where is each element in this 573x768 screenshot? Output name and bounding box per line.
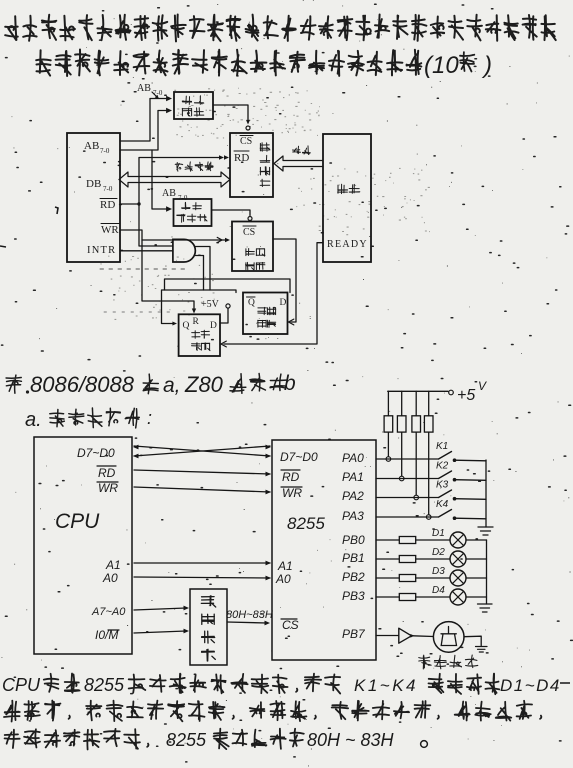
node +5V bubble at request D: [226, 304, 230, 308]
svg-text:AB: AB: [162, 188, 176, 199]
label mask text row2 b: [267, 320, 276, 327]
svg-text:PA2: PA2: [342, 489, 364, 503]
wire PB1 to resistor: [376, 558, 399, 560]
wire PA2 to switch: [376, 497, 438, 499]
label decoder U2 row1b: [193, 203, 202, 210]
svg-text:(10: (10: [424, 52, 459, 79]
resistor RD1: [399, 537, 415, 544]
label control-port text row2: [246, 262, 255, 269]
node junction PA0: [386, 457, 391, 462]
label buzzer (4 glyphs): [419, 655, 478, 669]
address decoder box: [190, 589, 227, 665]
svg-text:7-0: 7-0: [100, 147, 110, 155]
node CS bubble on control port: [248, 217, 252, 221]
label request text row1 a: [192, 331, 200, 339]
wire IO/M to decoder: [134, 631, 186, 633]
node CS bubble on data port: [246, 126, 250, 130]
label mask text row1 a: [258, 307, 267, 314]
svg-text:D3: D3: [432, 566, 445, 577]
overline RD pin: [100, 198, 117, 200]
wire A0: [134, 577, 270, 578]
interrupt mask flip-flop box: [243, 293, 288, 335]
resistor RD3: [399, 575, 415, 582]
wire data bus cross a: [134, 446, 270, 456]
wire control port to mask clock: [273, 239, 296, 322]
node +5V terminal: [449, 390, 454, 395]
wire switch K2 to rail: [455, 479, 487, 482]
svg-text:D4: D4: [432, 585, 445, 596]
handwritten: xuan a: [143, 374, 158, 394]
wire WR to control port: [120, 230, 226, 240]
svg-text:80H~83H: 80H~83H: [226, 609, 273, 621]
switch K3 blade: [439, 490, 452, 498]
peripheral box: [323, 134, 371, 262]
resistor R1: [384, 416, 393, 432]
label data-port vertical text: [260, 143, 270, 187]
wire pull-up 4 upper: [428, 391, 430, 416]
wire PA1 to switch: [376, 478, 438, 480]
lamp D1 cross: [452, 534, 463, 545]
handwritten b1 seg7: [429, 674, 500, 695]
handwritten: as-shown-below: [50, 408, 140, 428]
node junction PA1: [399, 476, 404, 481]
svg-text:DB: DB: [86, 178, 101, 190]
svg-text:V: V: [478, 379, 487, 393]
8255 box: [272, 440, 376, 660]
wire AB to decoder U1 input a: [120, 99, 168, 142]
wire READY to request clock: [224, 243, 323, 344]
svg-text:CS: CS: [282, 618, 299, 632]
label mask text row2 a: [258, 320, 267, 327]
switch K2 contact node: [453, 478, 457, 482]
svg-text:8255: 8255: [84, 675, 125, 695]
handwritten full stop circle: [421, 741, 428, 748]
wire PB2 to resistor: [376, 577, 399, 579]
wire +5V bus: [388, 390, 448, 392]
wire decoder to CS: [227, 622, 267, 623]
resistor RD4: [399, 594, 415, 601]
svg-text:80H ~ 83H: 80H ~ 83H: [307, 730, 395, 750]
wire gate area stub: [196, 256, 204, 291]
label control-port text row1b: [256, 249, 265, 257]
wire resistor to lamp D4: [416, 596, 450, 598]
svg-text:Q: Q: [248, 298, 255, 308]
overline CPU RD: [97, 465, 116, 467]
svg-text:A7~A0: A7~A0: [91, 606, 126, 618]
svg-text:a.: a.: [25, 409, 42, 431]
wire switch ground rail: [485, 460, 487, 527]
svg-text:D7~D0: D7~D0: [77, 446, 115, 460]
svg-text:+5V: +5V: [201, 299, 220, 310]
label mask text row1 b: [267, 307, 276, 315]
wire request-Q net: [162, 290, 237, 324]
svg-text::: :: [147, 408, 152, 428]
wire PB7 to driver: [376, 635, 399, 637]
svg-text:PA1: PA1: [342, 470, 364, 484]
tick on WR wire: [217, 237, 222, 242]
label decoder U2 row2 b: [187, 214, 196, 222]
label decoder U1 row2 (decode): [182, 108, 191, 116]
wire switch K4 to rail: [455, 517, 487, 520]
overline 8255 CS: [281, 618, 297, 620]
wire PB3 to resistor: [376, 596, 399, 598]
wire PA3 to switch: [376, 516, 438, 518]
buzzer speaker symbol: [441, 627, 457, 646]
svg-text:K3: K3: [436, 480, 449, 491]
svg-text:WR: WR: [101, 224, 119, 236]
wire request D pull-up: [220, 309, 228, 324]
node junction PA2: [414, 495, 419, 500]
resistor R3: [412, 416, 421, 432]
handwritten b1 seg6: [305, 674, 340, 694]
wire switch K1 to rail: [455, 459, 487, 462]
svg-text:A0: A0: [275, 572, 291, 586]
wire driver to buzzer: [413, 635, 433, 638]
wire lamp D2 to rail: [466, 558, 487, 560]
label peripheral text b: [349, 184, 360, 193]
switch K4 contact node: [453, 516, 457, 520]
label request text row2 a: [192, 343, 201, 351]
svg-text:K2: K2: [436, 461, 449, 472]
bus arrow: data from peripheral: [274, 156, 323, 171]
wire gate output: [196, 247, 211, 291]
handwritten line: question 3 part 2: [36, 50, 421, 77]
buzzer body: [433, 622, 464, 653]
svg-text:WR: WR: [98, 481, 118, 495]
wire RD trunk to gate input: [139, 204, 173, 246]
handwritten b3 seg3: [214, 729, 304, 750]
svg-text:CPU: CPU: [55, 510, 100, 533]
label request text row2 b: [201, 343, 210, 351]
lamp D4 body: [450, 589, 466, 605]
wire PA0 to switch: [376, 458, 438, 460]
svg-text:RD: RD: [234, 152, 249, 164]
ground for buzzer: [476, 647, 488, 653]
wire PB0 to resistor: [376, 539, 399, 541]
wire lamp D3 to rail: [466, 577, 487, 579]
svg-text:K4: K4: [436, 499, 449, 510]
svg-text:7-0: 7-0: [103, 185, 113, 193]
handwritten b3 seg1: [5, 729, 149, 750]
svg-text:D1: D1: [432, 528, 445, 539]
wire pull-up 3 upper: [415, 391, 417, 416]
stray scan mark left edge: [0, 207, 58, 247]
handwritten: question 4 numeral: [6, 375, 21, 393]
svg-text:PB3: PB3: [342, 589, 365, 603]
address decoder U1 box: [174, 92, 213, 119]
faint dashed scan line: [100, 268, 185, 270]
wire lamp D1 to rail: [466, 539, 487, 541]
wire pull-up 3 lower: [415, 432, 417, 495]
svg-text:7-0: 7-0: [178, 194, 188, 202]
wire switch K3 to rail: [455, 498, 487, 501]
svg-text:CPU: CPU: [2, 675, 41, 695]
svg-text:INTR: INTR: [87, 245, 116, 256]
address decoder U2 box: [174, 199, 212, 226]
wire data bus cross b: [134, 446, 270, 456]
overline 8255 RD: [281, 469, 300, 471]
wire RD to data port: [120, 158, 221, 205]
bus arrow: data bus between CPU and data port: [119, 172, 230, 187]
svg-text:RD: RD: [98, 466, 116, 480]
label decoder U2 row1: [182, 202, 190, 209]
label decoder U2 row2 c: [198, 214, 208, 221]
switch K4 blade: [439, 510, 452, 518]
handwritten line: question 3 part 1: [5, 15, 556, 42]
svg-text:A0: A0: [102, 571, 118, 585]
wire A1: [134, 562, 270, 564]
svg-text:+5: +5: [457, 387, 475, 404]
switch K3 contact node: [453, 497, 457, 501]
svg-text:Z80: Z80: [184, 372, 224, 397]
svg-text:AB: AB: [137, 83, 151, 94]
junction RD node: [137, 202, 140, 205]
label peripheral text: [338, 184, 348, 193]
svg-text:8255: 8255: [166, 730, 207, 750]
overline RD data port: [234, 150, 249, 152]
wire INTR to gate input: [120, 250, 173, 252]
switch K1 contact node: [453, 458, 457, 462]
handwritten b1 dash: [560, 682, 570, 684]
svg-text:A1: A1: [105, 558, 121, 572]
wire AB trunk to decoder U2: [152, 150, 167, 209]
svg-text:PA0: PA0: [342, 451, 364, 465]
lamp D1 body: [450, 532, 466, 548]
svg-text:Q: Q: [183, 321, 190, 331]
wire decoder U2 output to control-port CS: [212, 210, 251, 216]
svg-text:D7~D0: D7~D0: [280, 450, 318, 464]
svg-text:R: R: [193, 317, 200, 327]
label request text row1 b: [201, 330, 209, 338]
overline CS data port: [240, 135, 253, 137]
svg-text:CS: CS: [240, 136, 252, 147]
handwritten b1 seg4: [129, 674, 298, 694]
svg-text:WR: WR: [282, 486, 302, 500]
label control-port text row1: [246, 249, 255, 256]
wire lamp ground rail: [486, 540, 488, 604]
wire WR: [134, 487, 270, 492]
handwritten b1 seg2: [44, 674, 80, 693]
wire lamp D4 to rail: [466, 596, 487, 598]
lamp D2 cross: [452, 553, 463, 564]
overline mask Qbar: [247, 296, 256, 298]
wire pull-up 1 lower: [387, 432, 389, 456]
svg-text:D: D: [210, 321, 217, 331]
wire pull-up 4 lower: [428, 432, 430, 514]
wire resistor to lamp D1: [416, 539, 450, 541]
label data (2 glyphs): [293, 146, 311, 155]
handwritten b2: [4, 701, 541, 722]
svg-text:D1~D4: D1~D4: [500, 676, 561, 695]
svg-text:RD: RD: [282, 470, 300, 484]
switch K1 blade: [439, 452, 452, 460]
svg-text:D2: D2: [432, 547, 445, 558]
lamp D3 cross: [452, 572, 463, 583]
wire long horizontal to mask D: [165, 279, 291, 293]
overline 8255 WR: [281, 486, 302, 488]
interrupt request flip-flop box: [179, 314, 220, 356]
svg-text:RD: RD: [100, 199, 115, 211]
ground for switches: [478, 527, 493, 535]
resistor R4: [424, 416, 433, 432]
handwritten fen: [460, 52, 474, 71]
svg-text:AB: AB: [84, 140, 99, 152]
AND gate G1: [173, 239, 195, 262]
resistor R2: [397, 416, 406, 432]
svg-text:PB0: PB0: [342, 533, 365, 547]
data port box: [230, 133, 273, 197]
wire pull-up 1 upper: [387, 391, 389, 416]
lamp D4 cross: [452, 591, 463, 602]
label decoder U1 row2b: [194, 108, 204, 116]
svg-text:8255: 8255: [287, 514, 325, 533]
wire RD: [134, 470, 270, 474]
wire pull-up 2 lower: [401, 432, 403, 476]
wire pull-up 2 upper: [401, 391, 403, 416]
wire WR branch to request R input: [142, 240, 194, 310]
lamp D2 body: [450, 551, 466, 567]
CPU box: [34, 437, 132, 654]
node junction PA3: [426, 515, 431, 520]
small arrow from AB label: [152, 92, 158, 98]
svg-text:K1: K1: [436, 441, 448, 452]
control port box: [232, 222, 273, 272]
svg-text:b: b: [284, 372, 296, 395]
wire resistor to lamp D2: [416, 558, 450, 560]
wire AB to decoder U1 input b: [120, 111, 168, 151]
resistor RD2: [399, 556, 415, 563]
label decoder U2 row2 a: [177, 214, 185, 222]
wire decoder U1 output to data-port CS: [213, 105, 248, 122]
svg-text:PB1: PB1: [342, 551, 365, 565]
label data-bus (4 glyphs): [175, 162, 213, 171]
overline WR pin: [101, 223, 119, 225]
label decoder U1 row1b: [194, 96, 203, 105]
label decoder vertical text: [201, 596, 215, 661]
svg-text:PB2: PB2: [342, 570, 365, 584]
svg-text:CS: CS: [243, 227, 255, 238]
svg-text:K1~K4: K1~K4: [354, 676, 418, 695]
label control-port text row2b: [256, 263, 265, 270]
overline CPU WR: [97, 481, 118, 483]
svg-text:READY: READY: [327, 239, 368, 250]
svg-text:a,: a,: [163, 374, 181, 397]
wire A7~A0 to decoder: [134, 608, 186, 610]
wire resistor to lamp D3: [416, 577, 450, 579]
svg-text:8086/8088: 8086/8088: [30, 372, 135, 397]
wire buzzer to ground: [464, 636, 481, 645]
lamp D3 body: [450, 570, 466, 586]
svg-text:A1: A1: [277, 559, 293, 573]
driver buffer triangle: [399, 628, 412, 643]
svg-text:PB7: PB7: [342, 627, 366, 641]
label decoder U1 row1 (address): [182, 96, 191, 104]
switch K2 blade: [439, 471, 452, 479]
handwritten period after numeral: [26, 390, 29, 393]
overline CPU M: [108, 629, 119, 631]
CPU-side bus box: [67, 133, 120, 262]
svg-text:7-0: 7-0: [153, 89, 163, 97]
ground for lamps: [478, 604, 493, 612]
svg-text:D: D: [280, 298, 287, 308]
svg-text:PA3: PA3: [342, 509, 364, 523]
handwritten: lao sheng xuan: [230, 374, 286, 394]
overline CS control port: [243, 225, 256, 227]
